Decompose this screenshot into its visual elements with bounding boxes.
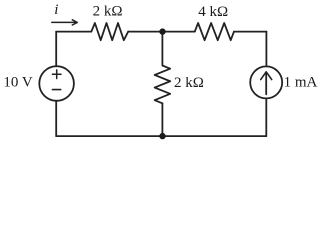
resistor R2 4 kOhm (top right, zigzag): [195, 23, 234, 40]
svg-text:1 mA: 1 mA: [284, 74, 318, 90]
current source I1 arrowhead: [261, 72, 272, 80]
wire right rail upper: [265, 32, 267, 67]
svg-text:2 kΩ: 2 kΩ: [174, 75, 204, 91]
current source I1 circle: [250, 66, 282, 98]
svg-text:10 V: 10 V: [3, 75, 32, 91]
resistor R1 2 kOhm (top left, zigzag): [91, 23, 128, 40]
wire top-middle segment: [128, 31, 195, 33]
wire left rail lower: [55, 101, 57, 136]
voltage source V1 plus sign: [52, 70, 61, 79]
voltage source V1 circle: [39, 66, 74, 101]
voltage source V1 minus sign: [53, 89, 61, 91]
current source I1 arrow shaft: [265, 73, 267, 95]
node top junction: [159, 28, 165, 34]
wire middle branch upper: [161, 32, 163, 66]
svg-text:2 kΩ: 2 kΩ: [93, 4, 123, 20]
current label i arrow shaft: [52, 21, 76, 23]
wire right rail lower: [265, 98, 267, 136]
current label i arrowhead: [72, 20, 77, 25]
wire middle branch lower: [161, 103, 163, 136]
svg-text:4 kΩ: 4 kΩ: [198, 4, 228, 20]
wire bottom rail: [56, 135, 266, 137]
resistor R3 2 kOhm (middle, vertical zigzag): [155, 66, 171, 104]
svg-text:i: i: [54, 2, 58, 18]
node bottom junction: [159, 133, 165, 139]
wire left rail upper: [55, 32, 57, 67]
wire top-right segment: [234, 31, 266, 33]
wire top-left horizontal segment: [56, 31, 91, 33]
